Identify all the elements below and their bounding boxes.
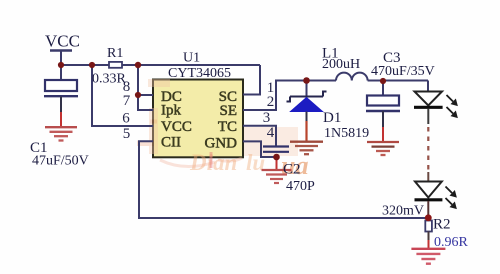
svg-text:TC: TC — [218, 119, 237, 135]
svg-text:CII: CII — [161, 135, 181, 151]
svg-text:470P: 470P — [286, 179, 315, 194]
svg-text:GND: GND — [205, 136, 238, 152]
svg-text:1N5819: 1N5819 — [324, 126, 369, 141]
svg-text:2: 2 — [267, 94, 275, 110]
svg-text:200uH: 200uH — [322, 57, 360, 72]
svg-text:Dian: Dian — [189, 150, 237, 175]
svg-text:C2: C2 — [283, 162, 301, 178]
svg-text:D1: D1 — [323, 110, 341, 126]
svg-text:VCC: VCC — [161, 119, 192, 135]
svg-text:CYT34065: CYT34065 — [168, 66, 231, 81]
svg-text:6: 6 — [122, 111, 130, 127]
svg-text:320mV: 320mV — [382, 204, 424, 219]
svg-text:5: 5 — [123, 126, 131, 142]
svg-text:47uF/50V: 47uF/50V — [32, 154, 89, 169]
svg-text:0.33R: 0.33R — [92, 72, 127, 87]
svg-text:470uF/35V: 470uF/35V — [371, 64, 435, 79]
svg-text:0.96R: 0.96R — [434, 235, 469, 250]
svg-text:U1: U1 — [183, 51, 200, 66]
svg-text:R1: R1 — [107, 46, 123, 61]
svg-text:3: 3 — [263, 110, 271, 126]
svg-text:VCC: VCC — [45, 32, 80, 51]
svg-text:Ipk: Ipk — [161, 103, 181, 119]
svg-text:4: 4 — [267, 125, 275, 141]
svg-text:R2: R2 — [433, 217, 451, 233]
svg-text:lu: lu — [246, 150, 265, 175]
svg-text:SE: SE — [219, 103, 237, 119]
svg-text:7: 7 — [123, 93, 131, 109]
